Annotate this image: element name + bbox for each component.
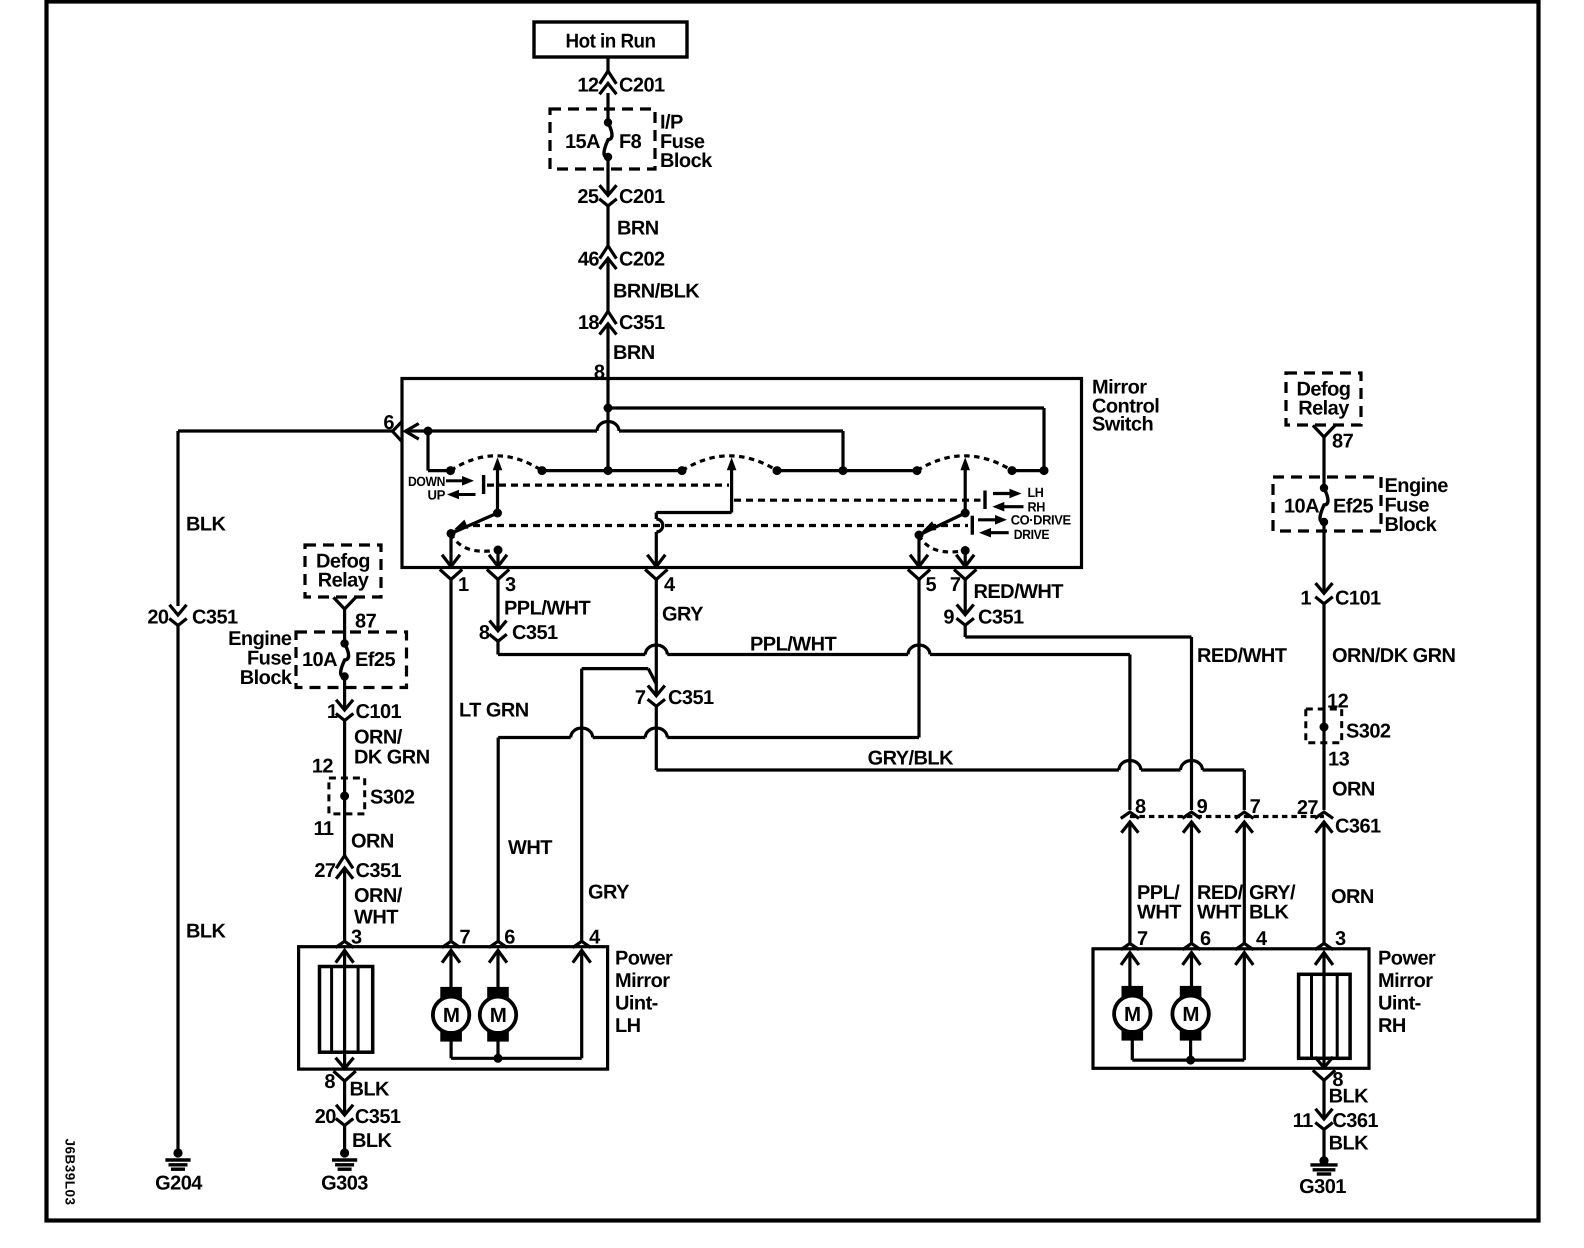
svg-text:G303: G303 xyxy=(321,1173,368,1195)
right wiper arrow up xyxy=(964,464,967,513)
RH mirror heater element xyxy=(1299,974,1351,1058)
wire GRY/BLK from C361 to RH mirror pin 4 xyxy=(1243,822,1246,944)
svg-text:PPL/WHT: PPL/WHT xyxy=(750,633,836,655)
contact dot left switch b xyxy=(538,466,547,475)
dashed linkage line 3 from middle wiper to LH-RH bar xyxy=(734,499,981,502)
svg-text:ORN/: ORN/ xyxy=(354,726,403,748)
power source box Hot in Run xyxy=(534,22,687,57)
svg-text:M: M xyxy=(1124,1003,1141,1026)
svg-text:15A: 15A xyxy=(565,131,600,153)
dashed linkage line 1 from detent bar to middle wiper xyxy=(487,484,729,487)
C361 pin 9 connector pair xyxy=(1184,812,1200,817)
wire BLK from C351 to ground G303 xyxy=(343,1126,346,1154)
svg-text:9: 9 xyxy=(943,606,954,628)
svg-text:4: 4 xyxy=(1256,928,1268,950)
svg-text:Power: Power xyxy=(1378,948,1436,970)
splice S302 dashed box left xyxy=(329,778,365,814)
wire BLK from C361 to ground G301 xyxy=(1322,1130,1325,1161)
svg-text:Power: Power xyxy=(615,948,673,970)
LH pin 6 internal arrow and wire to motor xyxy=(490,950,506,961)
svg-text:11: 11 xyxy=(1293,1110,1313,1132)
dashed rocker arc middle switch xyxy=(682,456,777,471)
svg-text:Mirror: Mirror xyxy=(615,970,670,992)
contact row segment middle xyxy=(777,469,917,472)
middle contact dot a xyxy=(773,466,782,475)
svg-text:12: 12 xyxy=(312,755,334,777)
fuse Ef25 10A left xyxy=(340,639,348,647)
svg-text:BLK: BLK xyxy=(186,513,227,535)
svg-text:C351: C351 xyxy=(978,606,1024,628)
right wiper pivot dot xyxy=(961,509,970,518)
svg-text:BRN: BRN xyxy=(617,217,659,239)
svg-text:C202: C202 xyxy=(619,248,665,270)
defog relay pin 87 connector xyxy=(1314,427,1334,438)
svg-text:46: 46 xyxy=(578,248,600,270)
RH label and arrow xyxy=(1004,505,1024,508)
svg-text:11: 11 xyxy=(313,818,333,840)
wire BRN from C201 to C202 xyxy=(606,206,609,246)
internal bus wire A from pin-8 junction to right contact xyxy=(608,406,1044,409)
svg-text:C101: C101 xyxy=(356,701,402,723)
svg-text:7: 7 xyxy=(950,574,961,596)
dashed rocker arc left switch xyxy=(451,456,543,471)
svg-text:8: 8 xyxy=(479,622,490,644)
wire PPL/WHT down to C361 pin 8 xyxy=(1128,655,1131,811)
svg-text:Relay: Relay xyxy=(1298,397,1350,419)
svg-text:1: 1 xyxy=(1300,587,1311,609)
ground G301 xyxy=(1319,1156,1328,1165)
C361 pin 27 connector pair xyxy=(1316,812,1332,817)
svg-text:RH: RH xyxy=(1378,1015,1406,1037)
pin 6 exit connector at left box edge xyxy=(393,423,401,440)
svg-text:GRY/BLK: GRY/BLK xyxy=(868,747,955,769)
splice dot S302 right xyxy=(1320,723,1329,732)
connector C361 dashed gang line xyxy=(1130,815,1324,818)
LH motor 1 xyxy=(441,987,462,997)
switch pin 1 connector below box xyxy=(441,571,461,580)
svg-text:UP: UP xyxy=(428,488,446,503)
wire GRY from switch pin 4 xyxy=(655,578,658,696)
contact dot left switch a xyxy=(446,466,455,475)
svg-text:Switch: Switch xyxy=(1092,414,1153,436)
contact dot middle switch a xyxy=(678,466,687,475)
svg-text:3: 3 xyxy=(351,926,362,948)
C361 pin 8 connector pair xyxy=(1122,812,1138,817)
I/P Fuse Block dashed outline xyxy=(550,109,655,169)
LH pin 7 internal arrow and wire to motor xyxy=(443,950,459,961)
switch pin 5 connector below box xyxy=(909,571,929,580)
svg-text:BLK: BLK xyxy=(350,1079,391,1101)
LH mirror pin 8 exit connector xyxy=(335,1072,355,1081)
svg-text:S302: S302 xyxy=(370,786,415,808)
svg-text:C361: C361 xyxy=(1332,1110,1378,1132)
pin 5 contact dot xyxy=(915,531,924,540)
svg-text:27: 27 xyxy=(314,860,336,882)
svg-text:87: 87 xyxy=(355,610,377,632)
middle wiper arrow up xyxy=(730,464,733,513)
svg-text:LH: LH xyxy=(1028,485,1044,500)
pin 7 contact dot xyxy=(961,546,970,555)
svg-text:C351: C351 xyxy=(356,860,402,882)
RH pin 3 arrow down to case exit xyxy=(1316,1058,1332,1068)
svg-text:M: M xyxy=(490,1004,507,1027)
RH mirror pin 7 connector xyxy=(1122,943,1138,948)
engine fuse block dashed box left xyxy=(296,632,407,688)
left wiper pivot dot xyxy=(493,509,502,518)
connector C101 pin 1 right (in-line, down) xyxy=(1317,584,1332,593)
fuse F8 15A xyxy=(604,118,612,126)
CO-DRIVE DRIVE detent bar xyxy=(971,516,974,535)
defog relay dashed box left xyxy=(305,545,381,597)
svg-text:J6B39L03: J6B39L03 xyxy=(63,1138,78,1205)
wire PPL/WHT from C361 to RH mirror pin 7 xyxy=(1128,822,1131,944)
svg-text:7: 7 xyxy=(460,926,471,948)
pin 4 internal arrow down xyxy=(648,556,664,567)
wire PPL/WHT turning right toward RH side with hops xyxy=(496,641,499,654)
switch pin 4 connector below box xyxy=(646,571,666,580)
svg-text:C101: C101 xyxy=(1335,587,1381,609)
C361 pin 7 connector pair xyxy=(1237,812,1253,817)
wire BLK from LH mirror to C351 pin 20 xyxy=(343,1080,346,1115)
wire from C201 into I/P fuse block xyxy=(606,93,609,124)
svg-text:M: M xyxy=(1182,1003,1199,1026)
svg-text:WHT: WHT xyxy=(354,906,398,928)
pin 3 contact dot xyxy=(494,546,503,555)
dashed arc from pin-5 contact to pin-7 contact xyxy=(919,535,965,552)
svg-text:3: 3 xyxy=(505,574,516,596)
CO-DRIVE label and arrow xyxy=(978,518,997,521)
wire GRY/BLK from C351 pin 7 turning right with hops xyxy=(655,706,658,770)
splice S302 dashed box right xyxy=(1306,709,1342,743)
dashed linkage line 2 across switch xyxy=(473,524,968,527)
RH mirror pin 4 connector xyxy=(1237,943,1253,948)
wire GRY/BLK down to C361 pin 7 xyxy=(1243,770,1246,810)
connector C351 pin 8 (in-line, down) xyxy=(491,622,506,631)
power mirror unit RH box xyxy=(1093,949,1369,1069)
svg-text:C351: C351 xyxy=(355,1106,401,1128)
svg-text:Relay: Relay xyxy=(318,569,370,591)
svg-text:18: 18 xyxy=(578,312,600,334)
wire from fuse Ef25 to connector C101 pin 1 right xyxy=(1322,522,1325,593)
wire BLK continuing to ground G204 xyxy=(176,626,179,1154)
RH pin 7 internal arrow and wire to motor xyxy=(1122,953,1138,964)
wire ORN from C361 to RH mirror pin 3 xyxy=(1322,822,1325,944)
connector C351 pin 7 (in-line, down) xyxy=(649,687,664,696)
svg-text:Ef25: Ef25 xyxy=(355,649,395,671)
splice dot S302 left xyxy=(340,792,349,801)
RH motor 2 wire to common bus xyxy=(1189,1040,1192,1060)
svg-text:Uint-: Uint- xyxy=(615,993,658,1015)
LH mirror pin 7 connector xyxy=(443,941,459,946)
ground G204 xyxy=(173,1148,182,1157)
svg-text:9: 9 xyxy=(1197,796,1208,818)
LH motor common bus xyxy=(451,1057,582,1060)
LH mirror pin 3 connector xyxy=(337,941,353,946)
wire ORN/DK GRN from C101 to splice S302 left xyxy=(343,721,346,797)
svg-text:Mirror: Mirror xyxy=(1378,970,1433,992)
LH pin 4 internal arrow and wire to common bus xyxy=(574,950,590,961)
wire WHT from switch pin 5 to LH mirror pin 6 xyxy=(917,578,920,738)
fuse Ef25 10A right xyxy=(1320,484,1328,492)
svg-text:3: 3 xyxy=(1335,928,1346,950)
wire BLK from RH mirror to C361 pin 11 xyxy=(1322,1079,1325,1119)
svg-text:DRIVE: DRIVE xyxy=(1014,527,1050,542)
svg-text:WHT: WHT xyxy=(1197,901,1241,923)
pin 1 contact dot xyxy=(447,529,456,538)
svg-text:25: 25 xyxy=(577,186,599,208)
svg-text:Hot in Run: Hot in Run xyxy=(566,30,656,52)
connector C202 pin 46 (in-line, up) xyxy=(601,246,616,257)
junction node on pin-8 wire xyxy=(604,404,613,413)
LH label and arrow xyxy=(993,492,1010,495)
svg-text:F8: F8 xyxy=(619,131,642,153)
svg-text:13: 13 xyxy=(1328,748,1350,770)
switch pin 7 connector below box xyxy=(955,571,975,580)
svg-text:PPL/WHT: PPL/WHT xyxy=(504,597,590,619)
svg-text:BLK: BLK xyxy=(1249,901,1290,923)
svg-text:G301: G301 xyxy=(1299,1176,1346,1198)
svg-text:4: 4 xyxy=(664,574,676,596)
LH motor 2 xyxy=(488,987,509,997)
wire from Hot in Run to connector C201 pin 12 xyxy=(606,57,609,73)
svg-text:4: 4 xyxy=(589,926,601,948)
svg-text:8: 8 xyxy=(324,1071,335,1093)
svg-text:C351: C351 xyxy=(192,606,238,628)
connector C201 pin 12 (in-line, up) xyxy=(601,71,616,83)
LH motor 1 wire to common bus xyxy=(450,1041,453,1058)
svg-text:10A: 10A xyxy=(302,649,337,671)
RH motor common bus xyxy=(1132,1058,1244,1061)
svg-text:7: 7 xyxy=(1250,796,1261,818)
svg-text:6: 6 xyxy=(504,926,515,948)
RH pin 6 internal arrow and wire to motor xyxy=(1184,953,1200,964)
wire ORN from S302 to C361 pin 27 xyxy=(1322,727,1325,810)
wire ORN/DK GRN from C101 to splice S302 right xyxy=(1322,604,1325,727)
svg-text:5: 5 xyxy=(926,574,937,596)
RH motor 1 wire to common bus xyxy=(1131,1040,1134,1060)
contact dot on pin-8 wire xyxy=(604,466,613,475)
LH mirror pin 6 connector xyxy=(490,941,506,946)
right wiper diagonal to pin-5 contact xyxy=(919,513,965,535)
contact row segment left xyxy=(542,469,682,472)
connector C101 pin 1 left (in-line, down) xyxy=(337,701,352,710)
svg-text:7: 7 xyxy=(1137,928,1148,950)
svg-text:BLK: BLK xyxy=(186,920,227,942)
connector C351 pin 18 (in-line, up) xyxy=(601,311,616,323)
RH mirror pin 3 connector xyxy=(1316,943,1332,948)
open arrowhead on right wiper diagonal xyxy=(920,521,936,536)
RH mirror pin 6 connector xyxy=(1184,943,1200,948)
svg-text:LT GRN: LT GRN xyxy=(459,699,529,721)
svg-text:BRN/BLK: BRN/BLK xyxy=(613,280,700,302)
svg-text:BLK: BLK xyxy=(1329,1085,1370,1107)
svg-text:ORN: ORN xyxy=(1331,886,1374,908)
svg-text:8: 8 xyxy=(594,361,605,383)
svg-text:ORN/: ORN/ xyxy=(354,885,403,907)
pin 1 internal wire and arrow down xyxy=(449,534,452,567)
svg-text:RED/WHT: RED/WHT xyxy=(1197,645,1287,667)
svg-text:20: 20 xyxy=(147,606,169,628)
RH bus junction dot xyxy=(1186,1056,1195,1065)
LH-RH detent bar xyxy=(983,491,986,510)
svg-text:C351: C351 xyxy=(668,687,714,709)
svg-text:CO·DRIVE: CO·DRIVE xyxy=(1011,513,1071,528)
LH motor 2 wire to common bus xyxy=(496,1041,499,1058)
svg-text:BLK: BLK xyxy=(1329,1132,1370,1154)
middle contact dot b xyxy=(839,466,848,475)
wire from fuse F8 to connector C201 pin 25 xyxy=(606,157,609,195)
connector C351 pin 20 left (in-line, down) xyxy=(171,606,186,615)
svg-text:7: 7 xyxy=(635,687,646,709)
internal bus wire B from pin-6 arrow to centre contact with hop over pin-8 wire xyxy=(405,429,597,432)
svg-text:Block: Block xyxy=(240,667,293,689)
svg-text:Block: Block xyxy=(660,150,713,172)
svg-text:C201: C201 xyxy=(619,74,665,96)
svg-text:WHT: WHT xyxy=(1137,901,1181,923)
LH pin 3 arrow down to case exit xyxy=(337,1059,353,1069)
mirror control switch box xyxy=(402,379,1082,568)
contact dot right switch a xyxy=(913,466,922,475)
svg-text:1: 1 xyxy=(327,701,338,723)
LH bus junction dot xyxy=(494,1054,503,1063)
svg-text:C351: C351 xyxy=(512,622,558,644)
wire PPL/WHT from switch pin 3 xyxy=(496,578,499,631)
svg-text:M: M xyxy=(443,1004,460,1027)
RH mirror pin 8 exit connector xyxy=(1314,1071,1334,1080)
svg-text:S302: S302 xyxy=(1346,720,1391,742)
svg-text:ORN: ORN xyxy=(1332,778,1375,800)
connector C351 pin 27 (in-line, up) xyxy=(337,856,352,868)
GRY branch splice to LH mirror pin 4 xyxy=(648,669,656,684)
svg-text:Block: Block xyxy=(1385,514,1438,536)
pin 6 internal arrow pointing left xyxy=(405,424,417,438)
connector C351 pin 20 (in-line, down) xyxy=(337,1106,352,1115)
dashed rocker arc right switch xyxy=(917,456,1012,471)
power mirror unit LH box xyxy=(299,947,608,1069)
ground G303 xyxy=(340,1148,349,1157)
svg-text:C201: C201 xyxy=(619,186,665,208)
svg-text:G204: G204 xyxy=(155,1173,203,1195)
svg-text:87: 87 xyxy=(1332,430,1354,452)
left wiper diagonal to pin-1 contact xyxy=(451,513,498,534)
svg-text:Uint-: Uint- xyxy=(1378,993,1421,1015)
svg-text:1: 1 xyxy=(458,574,469,596)
wire BRN from C351 to mirror control switch pin 8 xyxy=(606,324,609,379)
svg-text:12: 12 xyxy=(577,74,599,96)
svg-text:BRN: BRN xyxy=(613,342,655,364)
pin 3 internal wire and arrow down xyxy=(496,550,499,567)
junction node on wire B xyxy=(424,427,433,436)
DRIVE label and arrow xyxy=(991,531,1009,534)
svg-text:GRY: GRY xyxy=(662,603,704,625)
defog relay pin 87 connector left xyxy=(335,599,355,610)
connector C361 pin 11 (in-line, down) xyxy=(1317,1110,1332,1119)
svg-text:8: 8 xyxy=(1135,796,1146,818)
left wiper arrow up xyxy=(496,464,499,513)
svg-text:ORN: ORN xyxy=(351,830,394,852)
connector C351 pin 9 (in-line, down) xyxy=(958,606,973,615)
svg-text:C361: C361 xyxy=(1335,815,1381,837)
up-down detent bar xyxy=(482,475,485,494)
switch pin 8 internal wire down to common contact xyxy=(606,379,609,471)
wire RED/WHT turning right to C361 pin 9 xyxy=(964,625,967,637)
switch pin 3 connector below box xyxy=(488,571,508,580)
svg-text:Ef25: Ef25 xyxy=(1333,495,1373,517)
svg-text:RED/WHT: RED/WHT xyxy=(974,581,1064,603)
wire from fuse to connector C101 pin 1 left xyxy=(343,677,346,711)
wire BLK from switch pin 6 to ground G204 xyxy=(178,429,393,432)
LH pin 3 internal arrow and heater wire xyxy=(337,950,353,961)
RH motor 2 xyxy=(1180,986,1201,996)
wire from defog relay 87 to engine fuse block xyxy=(1322,437,1325,490)
svg-text:6: 6 xyxy=(1200,928,1211,950)
svg-text:BLK: BLK xyxy=(352,1130,393,1152)
contact row segment right xyxy=(1012,469,1044,472)
connector C201 pin 25 (in-line, down) xyxy=(601,186,616,195)
defog relay dashed box right xyxy=(1286,373,1361,425)
LH mirror heater element xyxy=(320,967,373,1053)
branch wire from wire-B junction down to left contact xyxy=(426,431,429,471)
wire ORN/WHT from C351 to LH mirror pin 3 xyxy=(343,868,346,942)
svg-text:DK GRN: DK GRN xyxy=(354,746,430,768)
wire RED/WHT from C361 to RH mirror pin 6 xyxy=(1190,822,1193,944)
pin 7 internal wire and arrow down xyxy=(964,551,967,567)
wire LT GRN from switch pin 1 to LH mirror pin 7 xyxy=(449,578,452,942)
contact dot right switch b xyxy=(1008,466,1017,475)
wire BRN/BLK from C202 to C351 xyxy=(606,258,609,311)
RH pin 3 internal arrow and heater wire xyxy=(1316,953,1332,964)
RH pin 4 internal arrow and wire to common bus xyxy=(1236,953,1252,964)
svg-text:WHT: WHT xyxy=(508,837,552,859)
svg-text:GRY: GRY xyxy=(588,881,630,903)
contact dot at wire A drop xyxy=(1040,466,1049,475)
wire from defog relay 87 to engine fuse block left xyxy=(343,609,346,645)
svg-text:10A: 10A xyxy=(1284,495,1319,517)
open arrowhead on left wiper diagonal xyxy=(452,520,468,534)
dashed arc from pin-1 contact to pin-3 contact xyxy=(451,534,498,552)
svg-text:ORN/DK GRN: ORN/DK GRN xyxy=(1332,645,1455,667)
LH mirror pin 4 connector xyxy=(574,941,590,946)
svg-text:C351: C351 xyxy=(619,312,665,334)
engine fuse block dashed box right xyxy=(1273,477,1381,531)
wire ORN from S302 to C351 pin 27 xyxy=(343,796,346,856)
pin 5 internal wire and arrow down xyxy=(917,535,920,567)
RH motor 1 xyxy=(1122,986,1143,996)
svg-text:LH: LH xyxy=(615,1015,641,1037)
wire RED/WHT from switch pin 7 xyxy=(964,578,967,615)
middle wiper wire to pin 4 with hop over linkage xyxy=(656,511,731,514)
svg-text:20: 20 xyxy=(315,1106,337,1128)
